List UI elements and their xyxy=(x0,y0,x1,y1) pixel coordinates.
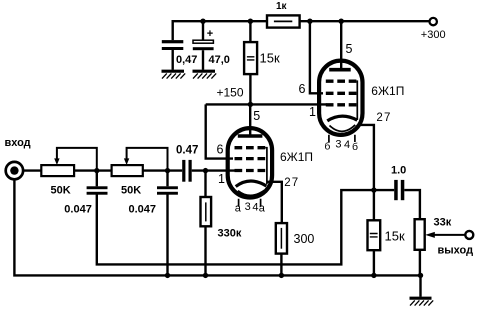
V1 grid row 2 xyxy=(235,157,266,160)
svg-text:33к: 33к xyxy=(434,216,452,228)
svg-text:1к: 1к xyxy=(276,1,288,12)
resistor 1к xyxy=(267,15,300,27)
svg-text:2: 2 xyxy=(284,177,290,189)
svg-text:0.047: 0.047 xyxy=(64,203,92,215)
node at 47,0 top xyxy=(200,19,205,24)
node +150 xyxy=(248,102,253,107)
terminal вход (input jack) xyxy=(6,162,23,179)
svg-text:4: 4 xyxy=(344,139,350,151)
potentiometer 50K second xyxy=(112,148,168,176)
capacitor 1.0 xyxy=(394,180,404,200)
V2 internal g3-cathode link xyxy=(355,81,358,120)
svg-text:б: б xyxy=(352,141,358,153)
node V2 cathode xyxy=(371,187,376,192)
wire V1 anode lead (pin 5) xyxy=(249,104,251,134)
wire 15k lower to ground bus xyxy=(373,250,375,275)
wire V2 anode lead (pin 5) xyxy=(340,21,342,68)
wire grid node down to 330k xyxy=(204,171,206,197)
node V1 grid xyxy=(203,168,208,173)
resistor 15к upper xyxy=(244,42,257,74)
wire pot2 to coupling cap xyxy=(143,169,182,171)
wire cap1 top lead xyxy=(96,171,98,187)
wire cap2 top lead xyxy=(166,171,168,187)
wire input down to ground bus xyxy=(14,179,420,275)
svg-text:0,47: 0,47 xyxy=(176,54,197,66)
V2 heater arc xyxy=(330,125,356,131)
ground under 0,47 xyxy=(162,71,186,78)
wire input to pot1 xyxy=(23,169,41,171)
resistor 300 xyxy=(276,223,287,254)
resistor 15к lower xyxy=(368,220,381,250)
V2 grid row 3 xyxy=(326,103,357,106)
wire 300 to ground bus xyxy=(280,254,282,276)
V2 cathode arc xyxy=(327,116,357,121)
svg-text:330к: 330к xyxy=(218,228,242,240)
svg-text:0.47: 0.47 xyxy=(176,145,198,157)
potentiometer 50K first xyxy=(41,148,97,176)
wire V1 screen feed (down to pin 6) xyxy=(206,104,233,158)
V1 cathode arc xyxy=(236,181,267,186)
svg-text:2: 2 xyxy=(376,112,382,124)
wire 15k upper bottom lead xyxy=(249,74,251,104)
svg-text:47,0: 47,0 xyxy=(209,54,230,66)
svg-text:3: 3 xyxy=(335,139,341,151)
svg-text:15к: 15к xyxy=(385,229,405,244)
wire ground lead bottom right xyxy=(419,275,421,296)
terminal +300 xyxy=(430,18,437,25)
svg-text:50K: 50K xyxy=(51,185,71,197)
svg-text:1: 1 xyxy=(309,105,316,119)
svg-text:вход: вход xyxy=(5,137,31,149)
V2 heater pins 3,4 xyxy=(329,135,355,142)
node bus 15k xyxy=(371,273,376,278)
node bus 300 xyxy=(279,273,284,278)
wire 0,47 lower lead xyxy=(171,50,173,70)
svg-text:б: б xyxy=(324,140,330,152)
wire 47,0 upper lead xyxy=(202,21,204,40)
capacitor 0.047 second xyxy=(157,186,178,194)
wire cap2 bottom lead to ground bus xyxy=(166,195,168,276)
svg-text:а: а xyxy=(235,202,242,214)
node bus 330k xyxy=(203,273,208,278)
node V2 anode tap xyxy=(339,19,344,24)
svg-text:+300: +300 xyxy=(421,29,446,41)
wire coupling cap to V1 grid xyxy=(192,169,236,171)
node at 15k top xyxy=(248,19,253,24)
wire V2 cathode out (pins 2,7) xyxy=(360,125,374,220)
wire 330k to ground bus xyxy=(204,226,206,275)
svg-text:+: + xyxy=(207,28,213,40)
capacitor 0.47 coupling xyxy=(182,160,192,182)
svg-text:300: 300 xyxy=(294,232,315,246)
V1 anode bar xyxy=(238,134,263,138)
node V2 screen tap xyxy=(307,19,312,24)
svg-text:1: 1 xyxy=(218,172,225,186)
wire 15k upper top lead xyxy=(249,21,251,42)
wire top rail left (B+ rail from cap node to 1k) xyxy=(173,21,267,40)
svg-text:1.0: 1.0 xyxy=(391,165,406,177)
node bus cap2 xyxy=(165,273,170,278)
svg-text:5: 5 xyxy=(346,42,353,56)
node pot1 wiper xyxy=(94,168,99,173)
33k wiper arrow to output xyxy=(425,232,465,238)
svg-text:а: а xyxy=(259,203,266,215)
V2 grid row 1 xyxy=(326,80,357,83)
svg-text:7: 7 xyxy=(292,177,298,189)
svg-text:50K: 50K xyxy=(121,185,141,197)
svg-text:6Ж1П: 6Ж1П xyxy=(280,150,313,164)
svg-text:7: 7 xyxy=(384,112,390,124)
V1 heater arc xyxy=(238,190,265,195)
svg-text:5: 5 xyxy=(253,109,260,123)
V2 grid row 2 xyxy=(326,92,357,95)
svg-text:15к: 15к xyxy=(260,51,280,66)
capacitor 0.047 first xyxy=(87,186,108,194)
capacitor 0,47 (top left) xyxy=(162,40,184,50)
wire +150 rail (V1 anode node to V2 grid) xyxy=(206,103,327,105)
tube V1 6Ж1П envelope xyxy=(228,128,272,197)
V1 heater pins 3,4 xyxy=(239,199,261,207)
V1 grid row 1 xyxy=(235,146,266,149)
svg-text:6: 6 xyxy=(217,142,224,156)
resistor 330к xyxy=(201,197,212,226)
capacitor 47,0 electrolytic xyxy=(193,40,214,50)
wire top rail right (1k to +300 terminal) xyxy=(300,20,430,22)
svg-text:0.047: 0.047 xyxy=(129,203,157,215)
svg-text:3: 3 xyxy=(245,201,251,213)
ground bottom right xyxy=(410,298,434,305)
svg-text:6Ж1П: 6Ж1П xyxy=(371,84,404,98)
wire 33k to ground bus xyxy=(419,250,421,276)
wire V1 cathode out (pins 2,7) to 300 xyxy=(267,182,282,223)
tube V2 6Ж1П envelope xyxy=(319,61,362,135)
wire 1.0 to 33k xyxy=(404,190,420,219)
svg-text:+150: +150 xyxy=(217,86,244,100)
wire pot1 to pot2 xyxy=(74,169,112,171)
node pot2 wiper xyxy=(165,168,170,173)
V1 internal g3-cathode link xyxy=(265,148,267,184)
potentiometer 33к xyxy=(415,219,425,250)
svg-text:4: 4 xyxy=(252,201,258,213)
wire feedback line (cap1 bottom to V2 cathode node) xyxy=(97,190,374,264)
svg-text:выход: выход xyxy=(438,244,474,256)
terminal выход xyxy=(465,231,473,239)
wire cathode node to 1.0 xyxy=(374,189,394,191)
V2 anode bar xyxy=(329,68,351,72)
ground under 47,0 xyxy=(193,71,217,78)
V1 grid row 3 xyxy=(235,169,266,172)
wire V2 screen feed from B+ (pin 6) xyxy=(310,21,323,93)
node bus ground xyxy=(418,273,423,278)
wire 47,0 lower lead xyxy=(202,50,204,70)
svg-text:6: 6 xyxy=(299,82,306,96)
